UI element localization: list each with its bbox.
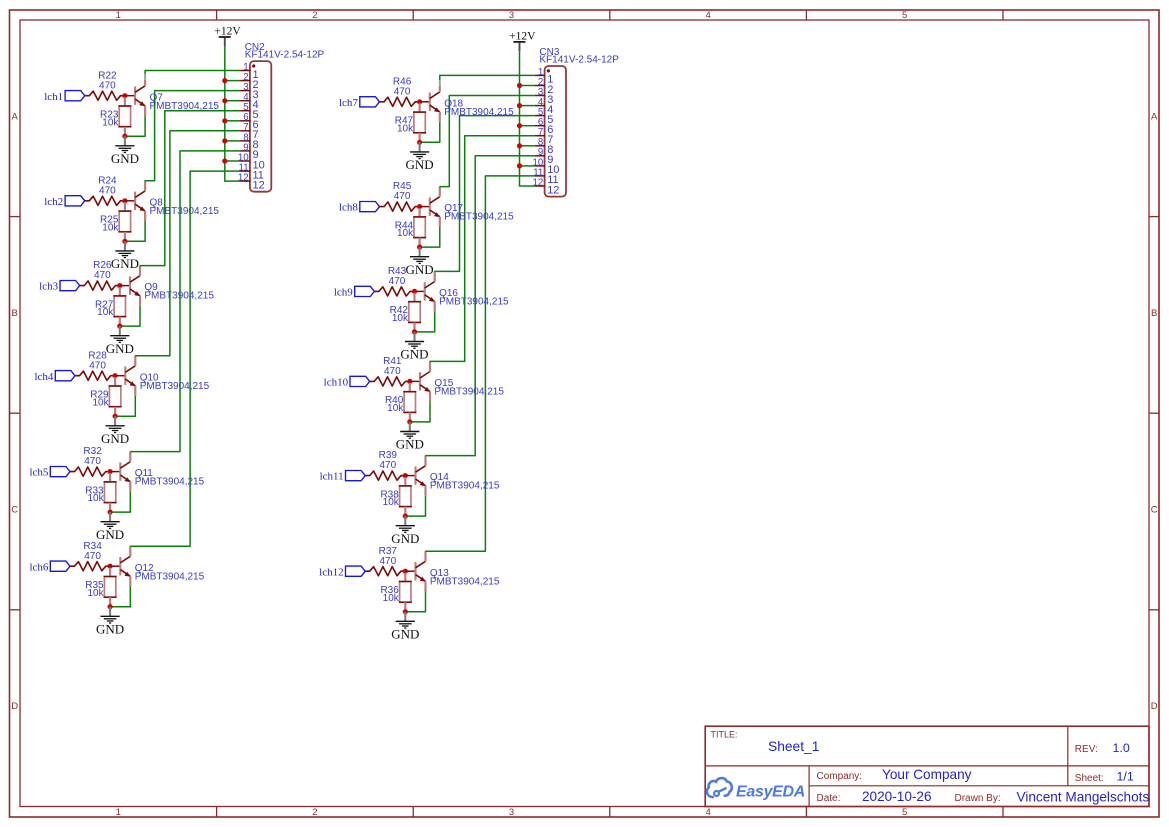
transistor Q12 emitter lead: [129, 576, 131, 586]
wire +12V to CN2 pin 2: [225, 80, 240, 82]
resistor R27 body: [114, 296, 125, 317]
frame bottom tick 3: [609, 807, 611, 818]
transistor Q14 emitter lead: [424, 486, 426, 496]
transistor Q8 emitter arrow: [139, 206, 145, 211]
connector CN2 with +12V rail: [0, 0, 1, 1]
frame top tick 5: [1002, 10, 1004, 20]
transistor Q13 emitter arrow: [420, 577, 426, 582]
svg-text:470: 470: [379, 556, 396, 567]
transistor Q18 base bar: [429, 93, 431, 111]
transistor Q10 emitter slant: [125, 379, 135, 386]
ground node junction below R29: [113, 414, 118, 419]
wire emitter of Q8 to ground node: [125, 221, 145, 241]
driver circuit Q8 (lch2): [0, 0, 1, 1]
svg-text:10k: 10k: [397, 123, 414, 134]
resistor R25 bottom lead: [124, 232, 126, 242]
transistor Q15 emitter slant: [420, 385, 430, 392]
connector CN2 pin 6 stub: [240, 120, 250, 122]
power +12V stem at CN3: [519, 42, 521, 51]
transistor Q12 emitter slant: [120, 570, 130, 577]
svg-text:KF141V-2.54-12P: KF141V-2.54-12P: [245, 50, 325, 61]
svg-text:GND: GND: [96, 527, 124, 542]
svg-text:Company:: Company:: [817, 771, 863, 782]
transistor Q14 emitter arrow: [420, 481, 426, 486]
node junction at R28/Q10 base: [113, 373, 118, 378]
svg-text:B: B: [12, 308, 18, 319]
port lch11: [346, 471, 366, 481]
svg-text:470: 470: [99, 80, 116, 91]
resistor R26 zigzag: [80, 281, 120, 290]
svg-text:470: 470: [384, 366, 401, 377]
wire base of Q16: [415, 290, 424, 292]
driver circuit Q11 (lch5): [0, 0, 1, 1]
svg-text:A: A: [1151, 111, 1158, 122]
wire collector riser to connector pin: [435, 116, 535, 272]
ground node junction below R36: [403, 609, 408, 614]
transistor Q9 emitter slant: [130, 289, 140, 296]
svg-text:10k: 10k: [92, 397, 109, 408]
connector CN3 pin 2 stub: [535, 85, 545, 87]
svg-text:10k: 10k: [392, 313, 409, 324]
svg-text:Drawn By:: Drawn By:: [955, 793, 1001, 804]
connector CN3 pin 7 stub: [535, 135, 545, 137]
resistor R42 top lead: [413, 293, 415, 302]
svg-text:12: 12: [547, 184, 559, 196]
EasyEDA logo cloud icon: [707, 778, 732, 797]
collector lead: [434, 272, 436, 282]
svg-text:2020-10-26: 2020-10-26: [862, 789, 932, 804]
wire over collector pin: [144, 74, 146, 79]
svg-text:KF141V-2.54-12P: KF141V-2.54-12P: [539, 54, 619, 65]
ground symbol bars: [396, 621, 415, 628]
wire emitter of Q11 to ground node: [110, 492, 130, 512]
resistor R44 top lead: [419, 208, 421, 217]
transistor Q7 emitter slant: [135, 99, 145, 106]
svg-text:lch1: lch1: [44, 91, 63, 103]
ground symbol bars: [110, 336, 129, 343]
transistor Q14 emitter slant: [416, 479, 426, 486]
svg-text:lch4: lch4: [34, 371, 53, 383]
ground symbol stem: [124, 136, 126, 146]
collector lead: [139, 266, 141, 276]
resistor R39 zigzag: [365, 471, 405, 480]
port lch4: [55, 371, 75, 381]
svg-text:lch6: lch6: [29, 561, 48, 573]
connector CN2 pin-1 mark: [252, 64, 255, 67]
collector lead: [424, 456, 426, 466]
svg-text:470: 470: [389, 276, 406, 287]
connector CN3 pin 8 stub: [535, 145, 545, 147]
connector CN2 body: [250, 61, 271, 192]
wire emitter of Q17 to ground node: [420, 227, 440, 247]
transistor Q10 emitter arrow: [130, 381, 136, 386]
wire base of Q11: [110, 471, 119, 473]
ground symbol bars: [101, 616, 120, 623]
port lch1: [65, 91, 85, 101]
resistor R27 bottom lead: [119, 317, 121, 327]
svg-text:PMBT3904,215: PMBT3904,215: [430, 576, 500, 587]
resistor R38 top lead: [404, 477, 406, 486]
resistor R29 top lead: [114, 377, 116, 386]
svg-text:4: 4: [705, 10, 710, 21]
connector CN2 pin 9 stub: [240, 150, 250, 152]
svg-text:12: 12: [533, 177, 544, 188]
svg-text:PMBT3904,215: PMBT3904,215: [434, 387, 504, 398]
wire +12V to CN3 pin 2: [520, 85, 535, 87]
svg-text:470: 470: [84, 551, 101, 562]
wire emitter of Q18 to ground node: [420, 122, 440, 142]
transistor Q11 emitter arrow: [125, 477, 131, 482]
wire +12V to CN2 pin 8: [225, 140, 240, 142]
svg-text:lch5: lch5: [29, 467, 48, 479]
wire +12V to CN2 pin 4: [225, 100, 240, 102]
wire emitter of Q10 to ground node: [115, 396, 135, 416]
wire collector riser to connector pin: [426, 176, 535, 552]
wire +12V bus of CN2: [225, 46, 240, 181]
ground symbol stem: [109, 607, 111, 617]
transistor Q10 collector slant: [125, 366, 135, 373]
ground symbol stem: [419, 142, 421, 152]
resistor R24 zigzag: [85, 196, 125, 205]
svg-text:1.0: 1.0: [1113, 741, 1130, 755]
svg-text:470: 470: [394, 86, 411, 97]
frame bottom tick 2: [412, 807, 414, 818]
collector lead: [439, 86, 441, 92]
wire base of Q14: [405, 475, 414, 477]
transistor Q16 emitter lead: [434, 302, 436, 312]
svg-text:lch3: lch3: [39, 281, 58, 293]
port lch2: [65, 196, 85, 206]
resistor R35 body: [104, 577, 115, 598]
resistor R43 zigzag: [374, 287, 414, 296]
wire base of Q12: [110, 565, 119, 567]
svg-text:GND: GND: [101, 431, 129, 446]
svg-text:GND: GND: [396, 437, 424, 452]
transistor Q15 collector slant: [420, 372, 430, 379]
port lch3: [60, 281, 80, 291]
transistor Q11 collector slant: [120, 462, 130, 469]
svg-text:GND: GND: [111, 256, 139, 271]
connector CN3 pin 11 stub: [535, 175, 545, 177]
svg-text:lch10: lch10: [324, 377, 349, 389]
frame top tick 3: [609, 10, 611, 20]
svg-text:+12V: +12V: [214, 25, 241, 37]
svg-text:A: A: [12, 111, 19, 122]
svg-text:10k: 10k: [102, 222, 119, 233]
wire +12V to CN2 pin 6: [225, 120, 240, 122]
svg-text:GND: GND: [406, 262, 434, 277]
transistor Q16 base bar: [424, 282, 426, 300]
title block divider left of REV/Sheet cells: [1067, 726, 1069, 786]
junction on +12V bus at CN3 pin 8: [517, 143, 522, 148]
svg-text:2: 2: [312, 807, 317, 818]
connector CN3 pin 10 stub: [535, 165, 545, 167]
title block divider right of logo cell: [808, 766, 810, 807]
collector lead: [129, 452, 131, 462]
connector CN3 pin-1 mark: [547, 69, 550, 72]
wire base of Q8: [125, 200, 134, 202]
svg-text:10k: 10k: [383, 497, 400, 508]
wire emitter of Q16 to ground node: [415, 312, 435, 332]
wire base of Q7: [125, 95, 134, 97]
resistor R33 top lead: [109, 473, 111, 482]
resistor R40 bottom lead: [409, 412, 411, 422]
connector CN3 pin 1 stub: [535, 74, 545, 76]
title block divider under TITLE row: [705, 765, 1149, 767]
connector CN3 pin 9 stub: [535, 155, 545, 157]
transistor Q12 base bar: [119, 557, 121, 575]
svg-text:470: 470: [84, 456, 101, 467]
ground symbol stem: [109, 512, 111, 522]
wire emitter of Q14 to ground node: [405, 496, 425, 516]
svg-text:D: D: [1151, 701, 1158, 712]
transistor Q7 base bar: [134, 87, 136, 105]
svg-text:1: 1: [116, 10, 121, 21]
transistor Q11 emitter slant: [120, 475, 130, 482]
svg-text:GND: GND: [406, 157, 434, 172]
resistor R23 body: [119, 106, 130, 127]
transistor Q17 base bar: [429, 197, 431, 215]
svg-text:3: 3: [509, 807, 514, 818]
wire emitter of Q7 to ground node: [125, 116, 145, 136]
collector lead: [424, 551, 426, 561]
collector lead: [429, 362, 431, 372]
port lch9: [355, 286, 375, 296]
frame right tick C: [1149, 609, 1159, 611]
node junction at R39/Q14 base: [403, 473, 408, 478]
ground node junction below R27: [117, 324, 122, 329]
power +12V bar symbol at CN3: [513, 41, 525, 43]
ground symbol bars: [101, 522, 120, 529]
connector CN2 pin 4 stub: [240, 100, 250, 102]
junction on +12V bus at CN3 pin 10: [517, 163, 522, 168]
resistor R47 body: [414, 112, 425, 133]
svg-text:+12V: +12V: [509, 30, 536, 42]
resistor R33 body: [104, 482, 115, 503]
resistor R23 bottom lead: [124, 127, 126, 137]
svg-text:470: 470: [394, 191, 411, 202]
svg-text:5: 5: [902, 10, 907, 21]
ground symbol bars: [410, 257, 429, 264]
wire collector riser to connector pin: [440, 96, 535, 187]
node junction at R37/Q13 base: [403, 569, 408, 574]
svg-text:3: 3: [509, 10, 514, 21]
svg-text:4: 4: [705, 807, 710, 818]
transistor Q13 emitter slant: [416, 575, 426, 582]
junction on +12V bus at CN3 pin 2: [517, 83, 522, 88]
resistor R41 zigzag: [370, 377, 410, 386]
resistor R47 bottom lead: [419, 133, 421, 143]
resistor R33 bottom lead: [109, 503, 111, 512]
svg-text:10k: 10k: [383, 593, 400, 604]
node junction at R45/Q17 base: [417, 204, 422, 209]
svg-text:GND: GND: [391, 626, 419, 641]
ground node junction below R47: [417, 140, 422, 145]
ground symbol bars: [115, 251, 134, 258]
wire collector to connector pin 1: [145, 71, 240, 75]
wire collector riser to connector pin: [140, 111, 240, 266]
resistor R29 body: [109, 386, 120, 407]
resistor R37 zigzag: [365, 567, 405, 576]
transistor Q13 base bar: [414, 562, 416, 580]
svg-text:PMBT3904,215: PMBT3904,215: [150, 206, 220, 217]
transistor Q12 collector slant: [120, 556, 130, 563]
ground symbol bars: [106, 426, 125, 433]
resistor R32 zigzag: [70, 467, 110, 476]
svg-text:470: 470: [379, 460, 396, 471]
resistor R44 body: [414, 217, 425, 238]
frame top tick 4: [805, 10, 807, 20]
transistor Q15 emitter arrow: [424, 387, 430, 392]
transistor Q18 emitter lead: [439, 112, 441, 122]
title block divider between Company and Date rows: [809, 785, 1149, 787]
svg-text:Your Company: Your Company: [882, 767, 972, 782]
resistor R36 body: [400, 582, 411, 603]
svg-text:GND: GND: [106, 341, 134, 356]
driver circuit Q15 (lch10): [0, 0, 1, 1]
frame top tick 2: [412, 10, 414, 20]
collector lead: [144, 80, 146, 86]
svg-text:Date:: Date:: [817, 793, 841, 804]
resistor R45 zigzag: [380, 202, 420, 211]
transistor Q7 emitter arrow: [139, 101, 145, 106]
svg-text:PMBT3904,215: PMBT3904,215: [439, 297, 509, 308]
resistor R47 top lead: [419, 103, 421, 112]
wire +12V to CN3 pin 10: [520, 165, 535, 167]
connector CN2 pin 7 stub: [240, 130, 250, 132]
transistor Q14 collector slant: [416, 466, 426, 473]
transistor Q8 emitter slant: [135, 204, 145, 211]
ground symbol stem: [409, 422, 411, 432]
connector CN3 with +12V rail: [0, 0, 1, 1]
svg-text:10k: 10k: [87, 588, 104, 599]
ground symbol stem: [404, 612, 406, 622]
port lch8: [360, 202, 380, 212]
wire collector riser to connector pin: [426, 156, 535, 456]
transistor Q14 base bar: [414, 466, 416, 484]
connector CN2 pin 2 stub: [240, 80, 250, 82]
connector CN2 pin 5 stub: [240, 110, 250, 112]
frame right tick A: [1149, 216, 1159, 218]
svg-text:lch9: lch9: [334, 287, 353, 299]
driver circuit Q16 (lch9): [0, 0, 1, 1]
ground node junction below R38: [403, 514, 408, 519]
transistor Q16 emitter slant: [425, 295, 435, 302]
port lch5: [50, 467, 70, 477]
transistor Q9 emitter lead: [139, 296, 141, 306]
transistor Q11 base bar: [119, 462, 121, 480]
ground symbol stem: [404, 516, 406, 526]
ground node junction below R35: [108, 604, 113, 609]
transistor Q17 emitter lead: [439, 217, 441, 227]
connector CN2 pin 12 stub: [240, 180, 250, 182]
transistor Q15 emitter lead: [429, 392, 431, 402]
ground symbol bars: [410, 152, 429, 159]
ground node junction below R44: [417, 245, 422, 250]
wire emitter of Q9 to ground node: [120, 306, 140, 326]
svg-text:470: 470: [89, 360, 106, 371]
transistor Q17 emitter slant: [430, 210, 440, 217]
driver circuit Q18 (lch7): [0, 0, 1, 1]
transistor Q8 collector slant: [135, 191, 145, 198]
driver circuit Q12 (lch6): [0, 0, 1, 1]
frame bottom tick 1: [216, 807, 218, 818]
ground symbol stem: [114, 416, 116, 426]
transistor Q17 collector slant: [430, 197, 440, 204]
svg-text:10k: 10k: [102, 117, 119, 128]
resistor R40 top lead: [409, 383, 411, 392]
ground symbol stem: [419, 247, 421, 257]
resistor R28 zigzag: [75, 371, 115, 380]
port lch7: [360, 97, 380, 107]
title block outer box: [705, 726, 1149, 806]
connector CN2 pin 8 stub: [240, 140, 250, 142]
wire emitter of Q15 to ground node: [410, 402, 430, 422]
svg-text:PMBT3904,215: PMBT3904,215: [444, 212, 514, 223]
collector lead: [144, 181, 146, 191]
svg-text:REV:: REV:: [1075, 744, 1098, 755]
svg-text:GND: GND: [111, 151, 139, 166]
connector CN3 pin 12 stub: [535, 185, 545, 187]
wire +12V to CN3 pin 6: [520, 125, 535, 127]
resistor R38 bottom lead: [404, 507, 406, 516]
transistor Q10 base bar: [124, 367, 126, 385]
node junction at R24/Q8 base: [122, 198, 127, 203]
svg-text:PMBT3904,215: PMBT3904,215: [430, 481, 500, 492]
connector CN2 pin 11 stub: [240, 170, 250, 172]
driver circuit Q7 (lch1): [0, 0, 1, 1]
ground node junction below R23: [122, 134, 127, 139]
svg-text:C: C: [1151, 505, 1158, 516]
collector lead: [129, 546, 131, 556]
power +12V bar symbol at CN2: [219, 36, 231, 38]
junction on +12V bus at CN2 pin 10: [222, 158, 227, 163]
connector CN2 pin 1 stub: [240, 70, 250, 72]
frame top tick 1: [216, 10, 218, 20]
svg-text:GND: GND: [400, 347, 428, 362]
svg-text:lch7: lch7: [339, 97, 358, 109]
svg-text:1/1: 1/1: [1117, 770, 1134, 784]
svg-text:10k: 10k: [97, 307, 114, 318]
frame right tick B: [1149, 412, 1159, 414]
svg-text:5: 5: [902, 807, 907, 818]
transistor Q18 collector slant: [430, 92, 440, 99]
junction on +12V bus at CN2 pin 2: [222, 78, 227, 83]
driver circuit Q14 (lch11): [0, 0, 1, 1]
connector CN2 pin 3 stub: [240, 90, 250, 92]
ground symbol stem: [119, 326, 121, 336]
frame left tick C: [10, 609, 21, 611]
port lch12: [346, 566, 366, 576]
svg-text:PMBT3904,215: PMBT3904,215: [150, 101, 220, 112]
ground symbol stem: [124, 241, 126, 251]
frame bottom tick 5: [1002, 807, 1004, 818]
svg-text:Sheet_1: Sheet_1: [768, 739, 819, 754]
svg-text:PMBT3904,215: PMBT3904,215: [144, 291, 214, 302]
connector CN3 body: [545, 66, 566, 197]
resistor R38 body: [400, 486, 411, 507]
frame left tick A: [10, 216, 21, 218]
wire collector riser to connector pin: [135, 131, 240, 356]
svg-text:470: 470: [94, 270, 111, 281]
transistor Q10 emitter lead: [134, 386, 136, 396]
transistor Q8 emitter lead: [144, 211, 146, 221]
resistor R25 top lead: [124, 202, 126, 211]
connector CN3 pin 4 stub: [535, 105, 545, 107]
wire +12V to CN3 pin 8: [520, 145, 535, 147]
svg-text:PMBT3904,215: PMBT3904,215: [140, 381, 210, 392]
transistor Q16 collector slant: [425, 282, 435, 289]
